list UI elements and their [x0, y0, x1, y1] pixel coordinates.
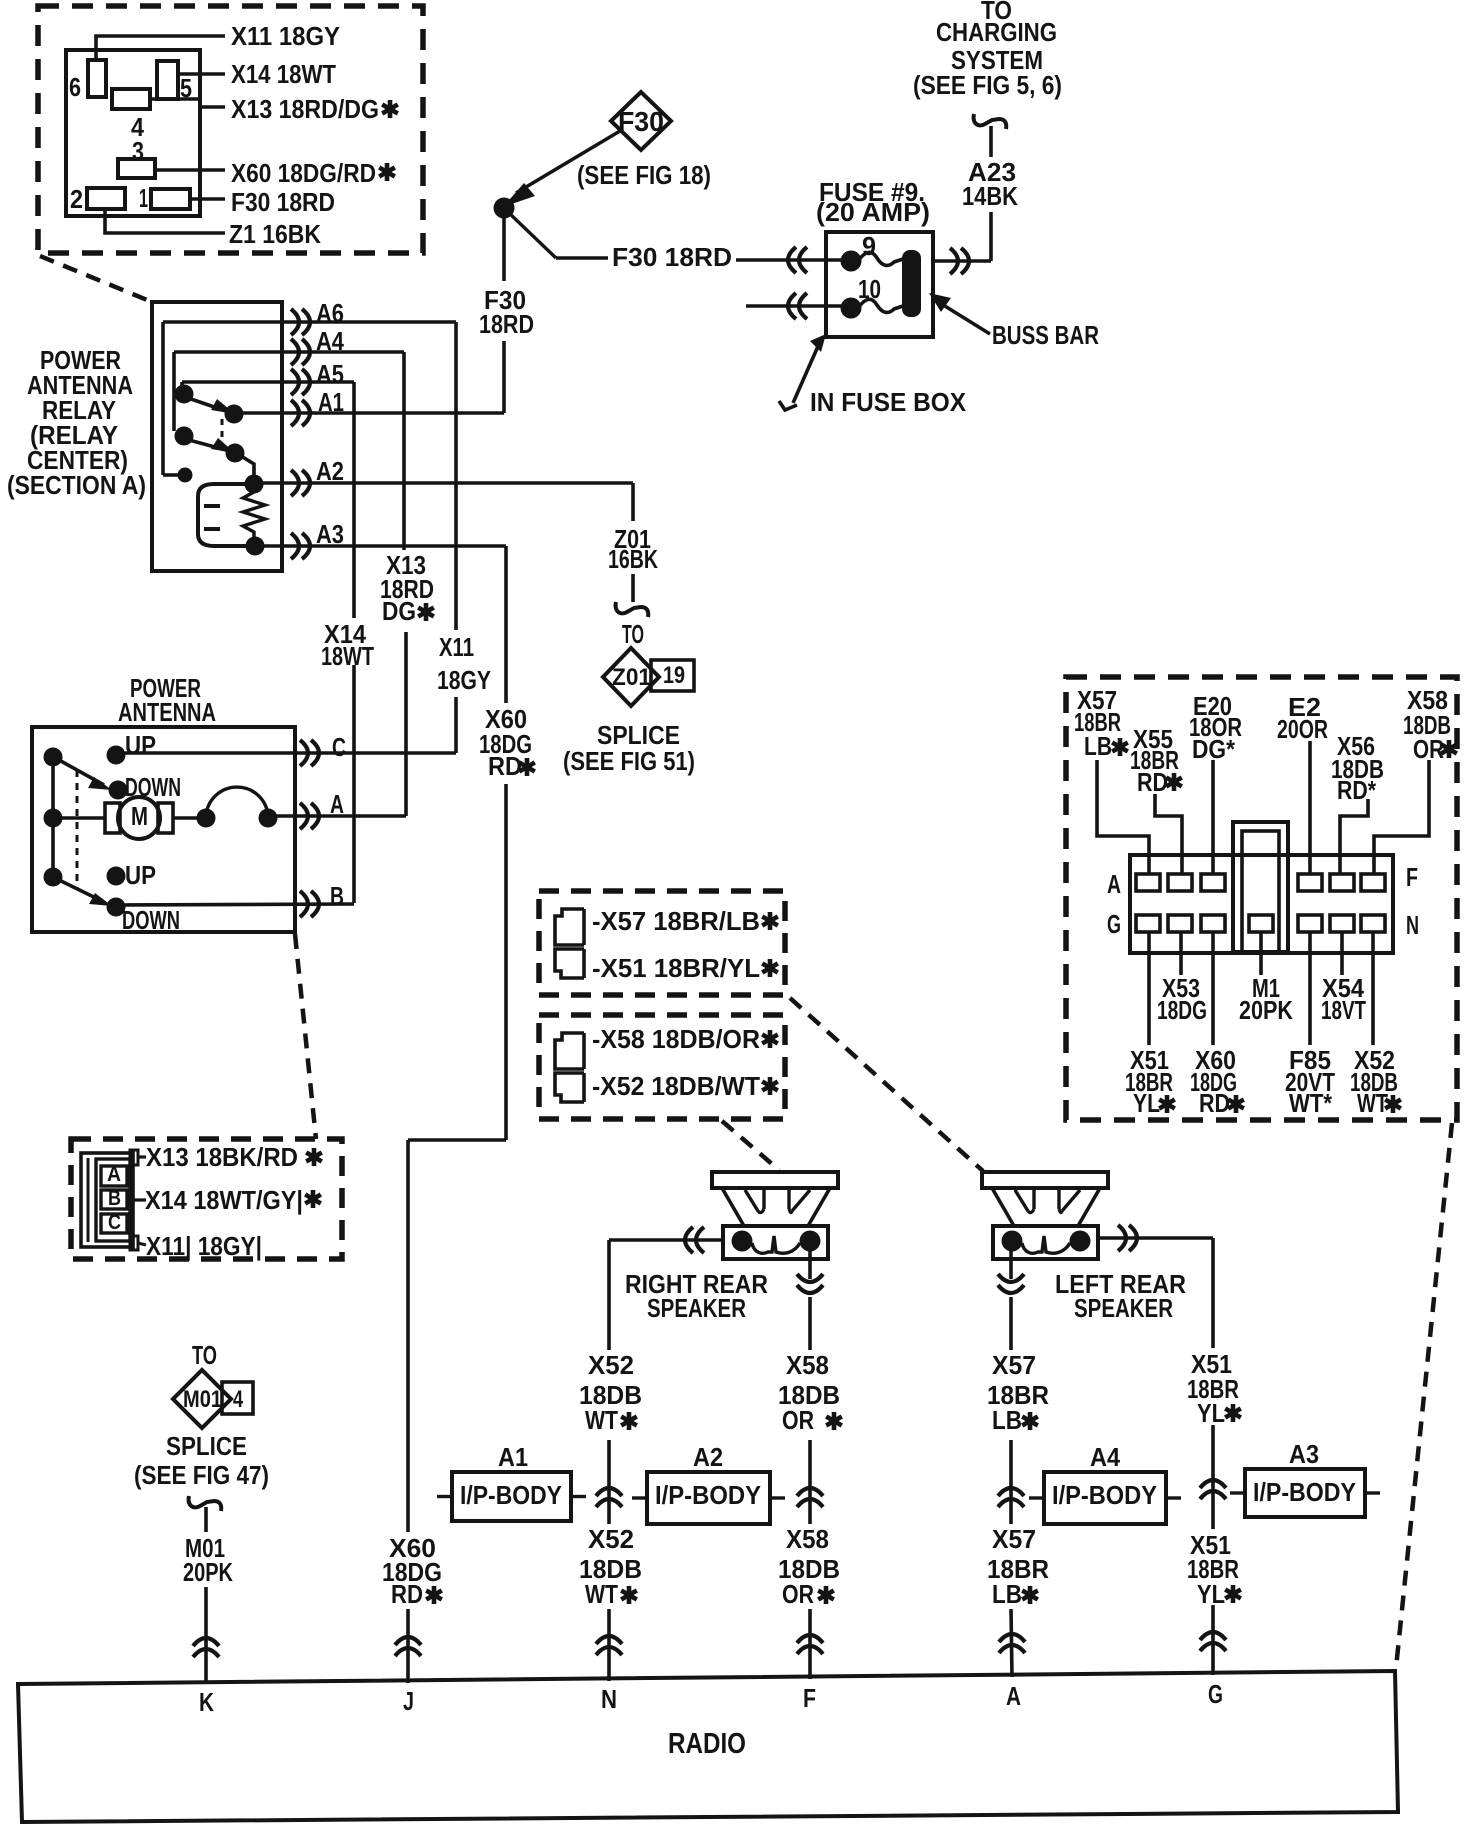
svg-text:LB: LB [992, 1579, 1022, 1609]
svg-text:A1: A1 [498, 1442, 528, 1472]
svg-text:I/P-BODY: I/P-BODY [1253, 1477, 1356, 1507]
svg-text:(SEE FIG 18): (SEE FIG 18) [577, 160, 711, 190]
svg-text:X58: X58 [786, 1524, 829, 1554]
svg-text:X57: X57 [992, 1524, 1036, 1554]
svg-text:20PK: 20PK [183, 1557, 233, 1587]
svg-text:A1: A1 [318, 387, 344, 417]
svg-text:IN FUSE BOX: IN FUSE BOX [810, 387, 967, 417]
svg-text:B: B [108, 1187, 121, 1210]
svg-text:M01: M01 [183, 1386, 222, 1413]
svg-text:YL: YL [1133, 1088, 1160, 1118]
svg-text:(SEE FIG 5, 6): (SEE FIG 5, 6) [913, 70, 1062, 100]
svg-text:N: N [1406, 910, 1419, 940]
svg-text:Z1 16BK: Z1 16BK [229, 219, 321, 249]
svg-text:G: G [1107, 909, 1121, 939]
svg-text:A5: A5 [316, 359, 344, 389]
svg-text:G: G [1208, 1679, 1223, 1709]
svg-text:14BK: 14BK [962, 181, 1018, 211]
svg-text:A: A [1107, 869, 1121, 899]
svg-text:OR: OR [1413, 734, 1444, 764]
svg-text:-X51 18BR/YL: -X51 18BR/YL [592, 953, 760, 983]
svg-text:YL: YL [1197, 1579, 1225, 1609]
svg-text:BUSS BAR: BUSS BAR [992, 320, 1099, 350]
svg-text:WT: WT [585, 1405, 618, 1435]
svg-text:TO: TO [192, 1340, 217, 1370]
svg-text:3: 3 [132, 136, 144, 166]
svg-text:I/P-BODY: I/P-BODY [655, 1480, 761, 1510]
svg-text:RD: RD [1137, 767, 1168, 797]
svg-text:-X57 18BR/LB: -X57 18BR/LB [592, 906, 760, 936]
svg-text:YL: YL [1197, 1398, 1225, 1428]
svg-text:SPEAKER: SPEAKER [647, 1293, 746, 1323]
svg-text:DG: DG [382, 596, 416, 626]
svg-text:X11| 18GY|: X11| 18GY| [146, 1231, 262, 1261]
svg-text:1: 1 [139, 183, 148, 213]
svg-text:K: K [199, 1687, 214, 1717]
svg-text:F30 18RD: F30 18RD [231, 187, 335, 217]
svg-text:DOWN: DOWN [122, 905, 180, 935]
svg-text:I/P-BODY: I/P-BODY [460, 1480, 562, 1510]
svg-text:18GY: 18GY [437, 665, 491, 695]
svg-text:X14 18WT/GY|: X14 18WT/GY| [145, 1185, 303, 1215]
svg-text:J: J [403, 1686, 414, 1716]
svg-text:TO: TO [622, 619, 644, 649]
svg-text:RD: RD [1199, 1088, 1230, 1118]
svg-text:C: C [108, 1211, 121, 1234]
svg-text:A: A [330, 789, 344, 819]
svg-text:A2: A2 [316, 456, 344, 486]
svg-text:20OR: 20OR [1277, 714, 1328, 744]
svg-text:-X58 18DB/OR: -X58 18DB/OR [592, 1024, 760, 1054]
svg-text:X13 18BK/RD: X13 18BK/RD [146, 1142, 298, 1172]
svg-text:WT: WT [1357, 1088, 1388, 1118]
svg-text:18VT: 18VT [1321, 995, 1366, 1025]
svg-text:X14 18WT: X14 18WT [231, 59, 336, 89]
svg-text:A2: A2 [693, 1442, 723, 1472]
svg-text:C: C [332, 732, 346, 762]
svg-text:UP: UP [125, 860, 156, 890]
svg-text:(SEE FIG 47): (SEE FIG 47) [134, 1460, 269, 1490]
svg-text:RD: RD [488, 751, 522, 781]
svg-text:F30 18RD: F30 18RD [612, 242, 732, 272]
svg-text:20PK: 20PK [1239, 995, 1293, 1025]
svg-text:LB: LB [1084, 731, 1112, 761]
svg-text:A4: A4 [316, 326, 344, 356]
svg-text:-X52 18DB/WT: -X52 18DB/WT [592, 1071, 760, 1101]
svg-text:X11: X11 [439, 632, 474, 662]
svg-text:18WT: 18WT [321, 641, 374, 671]
svg-text:X58: X58 [786, 1350, 829, 1380]
svg-text:UP: UP [125, 730, 156, 760]
svg-text:2: 2 [70, 184, 83, 214]
svg-text:F: F [803, 1683, 816, 1713]
svg-text:X52: X52 [588, 1524, 634, 1554]
svg-text:CHARGING: CHARGING [936, 17, 1057, 47]
svg-text:ANTENNA: ANTENNA [118, 697, 216, 727]
svg-text:16BK: 16BK [608, 544, 658, 574]
svg-text:A: A [1006, 1681, 1021, 1711]
svg-text:X13 18RD/DG: X13 18RD/DG [231, 94, 379, 124]
svg-text:WT: WT [585, 1579, 618, 1609]
svg-text:SPLICE: SPLICE [166, 1431, 247, 1461]
svg-text:A3: A3 [316, 519, 344, 549]
svg-text:X11 18GY: X11 18GY [231, 21, 340, 51]
svg-text:A4: A4 [1090, 1442, 1120, 1472]
svg-text:6: 6 [69, 72, 81, 102]
svg-text:A6: A6 [316, 298, 344, 328]
svg-text:(20 AMP): (20 AMP) [816, 197, 930, 227]
svg-text:(SECTION A): (SECTION A) [7, 470, 146, 500]
svg-text:18DG: 18DG [1157, 995, 1207, 1025]
svg-text:18RD: 18RD [479, 309, 534, 339]
svg-text:RD: RD [391, 1579, 423, 1609]
svg-text:RD*: RD* [1337, 775, 1377, 805]
svg-text:F: F [1406, 862, 1418, 892]
svg-text:19: 19 [663, 662, 685, 689]
svg-text:OR: OR [782, 1579, 814, 1609]
svg-text:Z01: Z01 [612, 664, 651, 691]
svg-text:WT*: WT* [1289, 1088, 1333, 1118]
svg-text:RADIO: RADIO [668, 1728, 746, 1760]
svg-text:SPEAKER: SPEAKER [1074, 1293, 1173, 1323]
svg-text:X57: X57 [992, 1350, 1036, 1380]
svg-text:N: N [601, 1684, 617, 1714]
svg-text:A3: A3 [1289, 1439, 1319, 1469]
svg-text:(SEE FIG 51): (SEE FIG 51) [563, 746, 695, 776]
svg-text:I/P-BODY: I/P-BODY [1052, 1480, 1157, 1510]
svg-text:X52: X52 [588, 1350, 634, 1380]
svg-text:OR: OR [782, 1405, 814, 1435]
svg-text:LB: LB [992, 1405, 1022, 1435]
svg-text:4: 4 [233, 1386, 243, 1413]
svg-text:B: B [330, 881, 344, 911]
svg-text:A: A [107, 1163, 121, 1186]
svg-text:X60 18DG/RD: X60 18DG/RD [231, 158, 376, 188]
svg-text:F30: F30 [618, 106, 664, 137]
svg-text:DG*: DG* [1192, 734, 1236, 764]
svg-text:M: M [131, 801, 148, 831]
